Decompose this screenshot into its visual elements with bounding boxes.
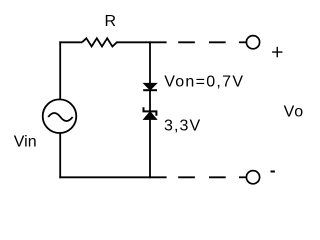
wire top rail right segment: [119, 41, 167, 43]
label -: [271, 171, 275, 173]
source Vin: [43, 99, 77, 133]
resistor R1: [82, 38, 119, 46]
label +: [272, 47, 282, 57]
dashed wire bottom: [178, 176, 246, 178]
wire middle branch lower: [149, 119, 151, 178]
svg-text:Von=0,7V: Von=0,7V: [164, 73, 244, 90]
wire middle branch upper: [149, 41, 151, 84]
wire left branch lower: [59, 134, 61, 179]
wire left branch upper: [59, 41, 61, 98]
svg-text:3,3V: 3,3V: [164, 118, 201, 135]
svg-text:Vin: Vin: [14, 134, 37, 151]
wire bottom rail: [59, 176, 166, 178]
terminal + output: [246, 36, 259, 49]
dashed wire top: [178, 41, 246, 43]
wire middle branch middle: [149, 89, 151, 112]
zener diode D2: [143, 107, 157, 119]
svg-text:Vo: Vo: [284, 103, 305, 120]
diode D1: [143, 83, 157, 90]
terminal - output: [246, 171, 259, 184]
svg-text:R: R: [105, 13, 117, 30]
wire top rail left segment: [59, 41, 82, 43]
